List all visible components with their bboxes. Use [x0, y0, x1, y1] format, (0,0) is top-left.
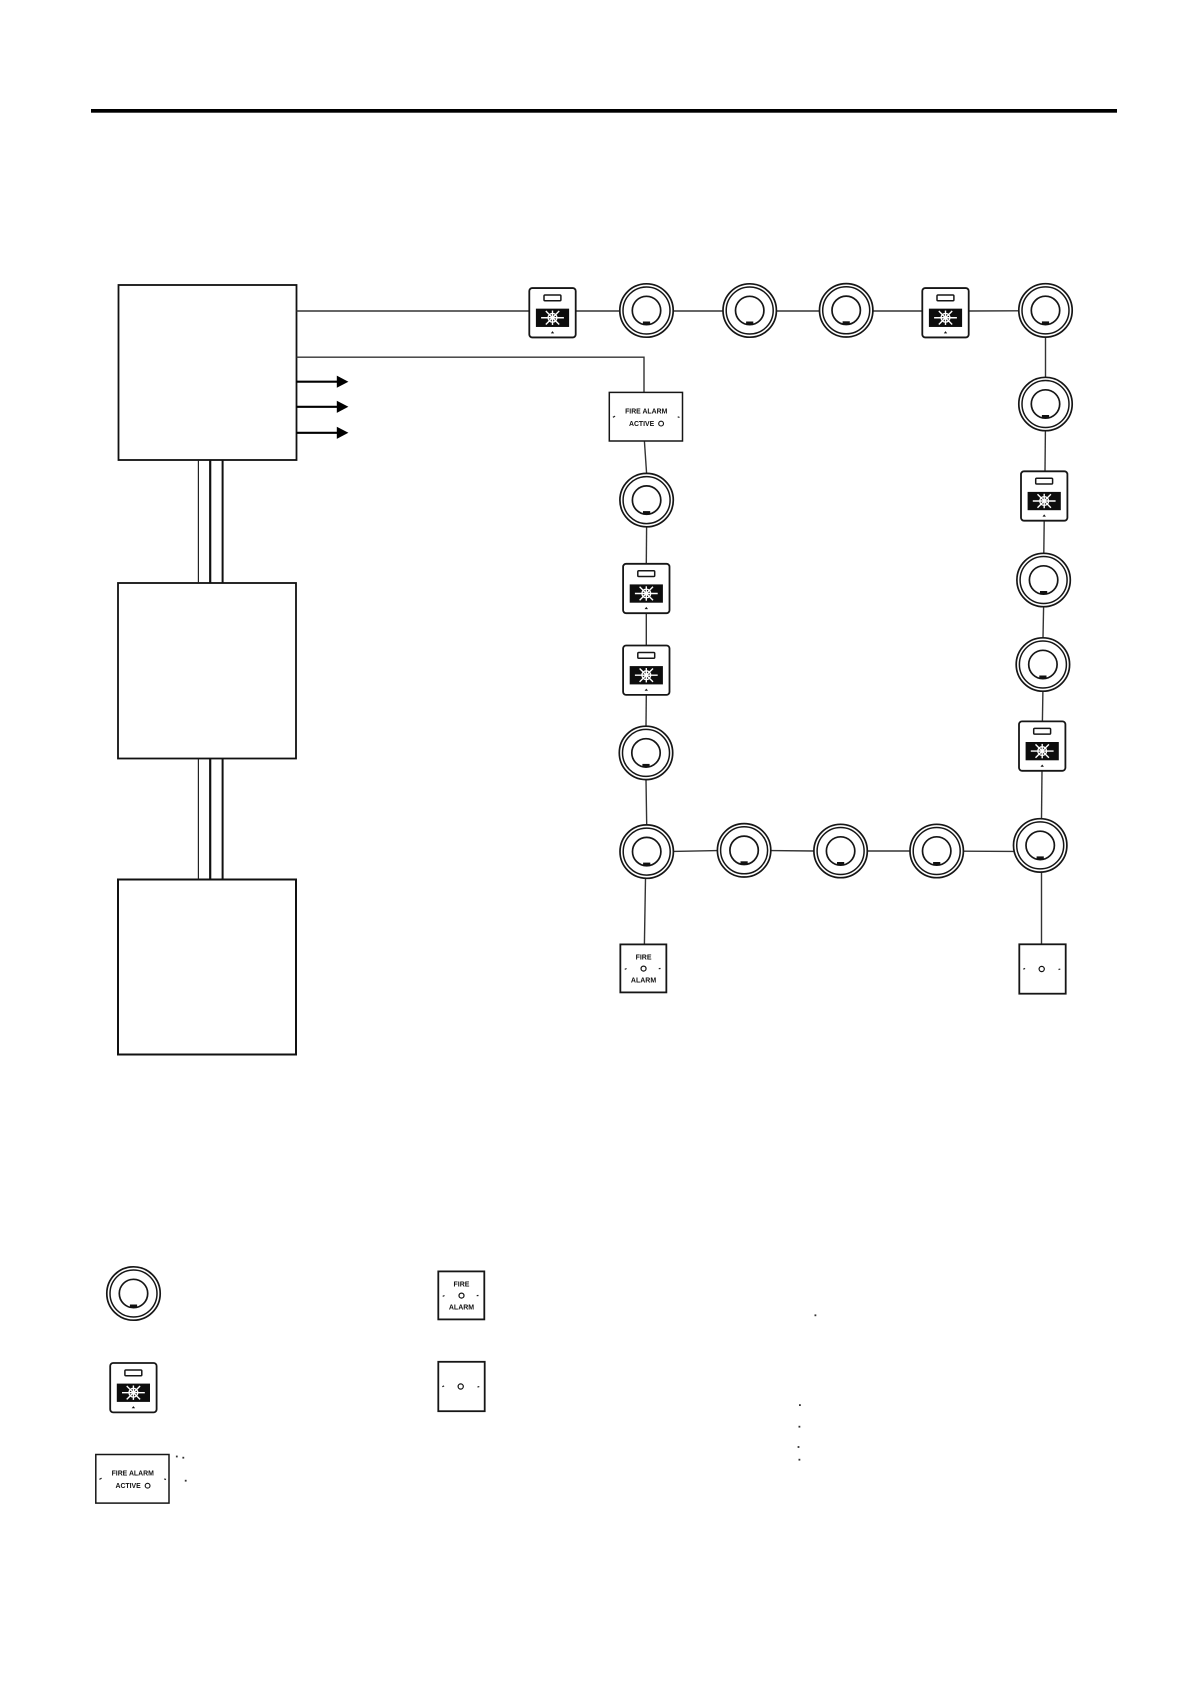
wire S2 to D4	[969, 310, 1019, 312]
output arrow 3	[297, 427, 349, 439]
stray dot 7	[182, 1457, 184, 1459]
smoke detector D10	[619, 726, 672, 779]
stray dot 8	[185, 1480, 187, 1482]
legend fire alarm active indicator	[96, 1455, 169, 1504]
wire D1 to D2	[673, 310, 723, 312]
riser wire 1a	[197, 460, 199, 583]
wire D8 to D14	[963, 850, 1013, 852]
top rule	[91, 109, 1117, 113]
stray dot 2	[799, 1404, 801, 1406]
smoke detector D5	[1019, 377, 1072, 430]
wire D12 to D11	[673, 850, 717, 853]
power supply box	[118, 583, 296, 759]
stray dot 3	[799, 1426, 801, 1428]
wire D10 to D11	[645, 780, 648, 825]
wire S4 to D8	[1041, 771, 1044, 819]
smoke detector D12	[717, 824, 770, 877]
smoke detector D9	[620, 473, 673, 526]
legend manual call point	[438, 1271, 484, 1319]
wire D6 to D7	[1042, 607, 1045, 638]
wire S1 to D1	[576, 310, 620, 312]
wire D11 to call point	[644, 878, 645, 944]
wire D9 to S5	[645, 527, 647, 564]
wire to fire alarm active indicator	[297, 357, 645, 392]
riser wire 1b	[209, 460, 211, 583]
wire D8 to remote indicator	[1041, 872, 1043, 944]
fire alarm control panel	[119, 285, 297, 460]
wire fire alarm active indicator to D9	[644, 441, 646, 473]
wire D13 to D12	[771, 850, 814, 852]
sounder S5	[623, 564, 669, 613]
smoke detector D2	[723, 284, 776, 337]
sounder S4	[1019, 721, 1065, 770]
stray dot 4	[798, 1446, 800, 1448]
legend smoke detector	[107, 1267, 160, 1320]
sounder S6	[623, 646, 669, 695]
wire D4 to D5	[1045, 337, 1047, 377]
smoke detector D11	[620, 825, 673, 878]
smoke detector D13	[814, 824, 867, 877]
stray dot 5	[799, 1459, 801, 1461]
fire alarm active indicator	[609, 392, 682, 441]
battery box	[118, 880, 296, 1055]
loop wire panel to sounder S1	[297, 310, 530, 312]
legend sounder	[110, 1363, 156, 1412]
remote indicator	[1019, 944, 1065, 993]
sounder S3	[1021, 471, 1067, 520]
riser wire 2b	[209, 759, 211, 880]
wire D2 to D3	[776, 310, 819, 312]
smoke detector D6	[1017, 553, 1070, 606]
wire D7 to S4	[1041, 691, 1044, 721]
smoke detector D3	[820, 284, 873, 337]
output arrow 1	[297, 376, 349, 388]
smoke detector D1	[620, 284, 673, 337]
wire S5 to S6	[645, 613, 647, 645]
smoke detector D8	[1013, 819, 1066, 872]
smoke detector D14	[910, 824, 963, 877]
stray dot 6	[176, 1456, 178, 1458]
manual call point	[620, 944, 666, 992]
smoke detector D7	[1016, 638, 1069, 691]
riser wire 1c	[222, 460, 224, 583]
wire D14 to D13	[867, 850, 910, 852]
wire S6 to D10	[645, 695, 647, 726]
legend remote indicator	[438, 1362, 484, 1411]
sounder S2	[922, 288, 968, 337]
riser wire 2a	[197, 759, 199, 880]
wire D3 to S2	[873, 310, 922, 312]
riser wire 2c	[222, 759, 224, 880]
stray dot 1	[815, 1314, 817, 1316]
output arrow 2	[297, 401, 349, 413]
wire D5 to S3	[1044, 431, 1046, 472]
wire S3 to D6	[1043, 521, 1045, 554]
sounder S1	[529, 288, 575, 337]
smoke detector D4	[1019, 284, 1072, 337]
